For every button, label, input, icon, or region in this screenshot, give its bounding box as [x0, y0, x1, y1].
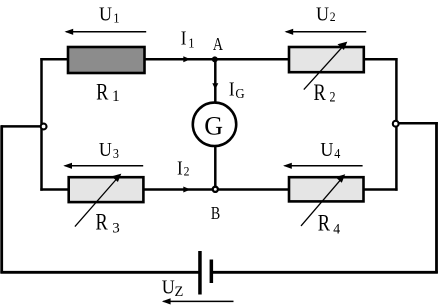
- svg-text:I: I: [229, 78, 235, 101]
- svg-text:G: G: [204, 111, 223, 140]
- voltage arrow U4: [283, 163, 363, 169]
- svg-text:R: R: [318, 209, 331, 236]
- wire outer right horizontal from terminal: [396, 122, 438, 125]
- svg-text:2: 2: [184, 164, 190, 179]
- svg-text:U: U: [99, 4, 112, 26]
- galvanometer U1 circle G: [193, 103, 236, 146]
- svg-text:2: 2: [330, 9, 336, 24]
- arrowhead current IG: [212, 83, 218, 89]
- wire lower rail node B to R4: [215, 188, 290, 191]
- svg-text:4: 4: [334, 146, 341, 161]
- svg-text:U: U: [316, 4, 329, 26]
- wire top rail from left branch to R1: [40, 58, 70, 61]
- wire top rail R2 to right branch: [362, 58, 398, 61]
- svg-text:I: I: [177, 157, 183, 180]
- label R3: [96, 208, 120, 237]
- battery long electrode (+): [198, 251, 202, 295]
- wire bottom rail battery to right: [212, 271, 438, 274]
- variable arrow of R3: [75, 174, 121, 227]
- svg-text:B: B: [211, 204, 220, 223]
- variable arrow of R4: [301, 174, 345, 226]
- label R4: [318, 209, 340, 237]
- node B junction ring: [213, 187, 218, 192]
- variable arrow of R2: [304, 42, 348, 90]
- svg-text:U: U: [320, 139, 333, 161]
- svg-text:U: U: [99, 139, 112, 161]
- wire right inner vertical branch: [395, 58, 398, 191]
- label R1: [96, 79, 120, 106]
- label I1: [181, 27, 195, 50]
- svg-text:G: G: [235, 86, 245, 101]
- battery short electrode (-): [210, 260, 214, 284]
- label I2: [177, 157, 189, 180]
- svg-text:2: 2: [330, 88, 336, 105]
- wire lower rail R4 to right branch: [362, 188, 398, 191]
- arrowhead current I2: [183, 187, 190, 193]
- wire outer left horizontal to terminal: [1, 125, 41, 128]
- svg-text:A: A: [213, 36, 224, 55]
- label IG: [229, 78, 245, 101]
- label U3: [99, 139, 119, 161]
- svg-text:R: R: [96, 79, 109, 106]
- right terminal node (open circle): [393, 121, 399, 127]
- resistor R1 body: [68, 47, 145, 73]
- voltage arrow UZ: [162, 298, 234, 304]
- wire left inner vertical branch: [40, 58, 43, 191]
- arrowhead current I1: [183, 56, 190, 62]
- left terminal node (open circle): [41, 124, 47, 130]
- wire galvanometer branch upper (node A to G): [214, 59, 217, 102]
- wire lower rail left branch to R3: [40, 188, 70, 191]
- svg-text:1: 1: [113, 10, 119, 26]
- label R2: [314, 79, 336, 106]
- svg-text:U: U: [162, 277, 175, 299]
- label U4: [320, 139, 340, 161]
- svg-text:R: R: [96, 208, 109, 235]
- svg-text:1: 1: [112, 88, 120, 105]
- label UZ: [162, 277, 184, 300]
- svg-text:R: R: [314, 79, 327, 106]
- svg-text:I: I: [181, 27, 187, 50]
- svg-text:Z: Z: [175, 284, 184, 300]
- wire outer left vertical down: [0, 125, 3, 273]
- svg-text:4: 4: [333, 221, 340, 238]
- resistor R3 body (variable): [69, 177, 144, 202]
- voltage arrow U3: [63, 163, 143, 169]
- label U1: [99, 4, 120, 26]
- voltage arrow U2: [285, 29, 367, 35]
- wire outer right vertical down: [435, 122, 438, 273]
- wire top rail R1 to node A (current I1 segment): [143, 58, 215, 61]
- resistor R4 body (variable): [289, 177, 364, 201]
- resistor R2 body (variable): [289, 47, 364, 72]
- voltage arrow U1: [65, 29, 147, 35]
- wire lower rail R3 to node B (current I2 segment): [142, 188, 215, 191]
- wire top rail node A to R2: [215, 58, 290, 61]
- wire galvanometer branch lower (G to node B): [214, 147, 217, 190]
- wire bottom rail left to battery: [0, 271, 199, 274]
- svg-text:3: 3: [113, 146, 119, 161]
- label U2: [316, 4, 336, 26]
- node A junction dot: [212, 56, 218, 62]
- svg-text:1: 1: [188, 35, 194, 51]
- svg-text:3: 3: [112, 221, 120, 237]
